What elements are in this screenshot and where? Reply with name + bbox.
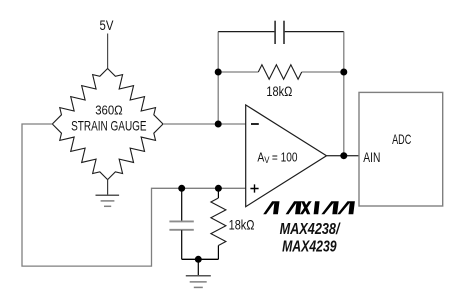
- svg-text:MAX4239: MAX4239: [282, 238, 337, 255]
- label 5V supply: [100, 17, 114, 33]
- wire op-amp output to ADC: [327, 155, 360, 157]
- wire 5V to bridge top node: [107, 34, 109, 69]
- strain gauge bridge arm top-left: [52, 69, 107, 125]
- capacitor C2 (input filter): [169, 188, 193, 259]
- strain gauge bridge arm top-right: [108, 69, 163, 125]
- svg-text:360Ω: 360Ω: [95, 102, 123, 117]
- junction feedback right at resistor: [340, 69, 347, 76]
- wire bridge right node to op-amp - input: [163, 123, 246, 125]
- wire feedback left vertical: [217, 32, 219, 124]
- label 360 ohm strain gauge: [71, 102, 147, 133]
- ADC box: [359, 92, 443, 206]
- junction feedback left at resistor: [215, 69, 222, 76]
- label 18k ohm (feedback): [266, 84, 292, 99]
- resistor R1 18k (feedback): [258, 65, 301, 80]
- junction + input at resistor: [215, 185, 222, 192]
- ground (bridge bottom): [96, 180, 120, 207]
- op-amp U1: [246, 105, 327, 207]
- svg-text:V: V: [264, 154, 270, 165]
- junction output node: [340, 152, 347, 159]
- junction + input at capacitor: [178, 185, 185, 192]
- label ADC: [392, 132, 411, 147]
- junction - input node: [215, 121, 222, 128]
- svg-text:STRAIN GAUGE: STRAIN GAUGE: [71, 118, 147, 134]
- pin label AIN: [363, 149, 380, 165]
- capacitor C1 (feedback): [275, 21, 284, 44]
- ground (filter): [186, 259, 211, 287]
- svg-text:18kΩ: 18kΩ: [229, 218, 255, 233]
- svg-text:AIN: AIN: [363, 149, 380, 165]
- wire bottom node: [182, 258, 219, 260]
- wire bridge left node to op-amp + input (bottom route): [22, 124, 246, 266]
- label MAX4238/MAX4239: [280, 221, 341, 255]
- label 18k ohm (gain set): [229, 218, 255, 233]
- wire feedback top loop (capacitor leads): [218, 31, 344, 33]
- strain gauge bridge arm bottom-right: [108, 124, 163, 180]
- MAXIM logo: [263, 201, 355, 214]
- svg-text:5V: 5V: [100, 17, 114, 33]
- svg-text:MAX4238/: MAX4238/: [280, 221, 341, 238]
- svg-text:18kΩ: 18kΩ: [266, 84, 292, 99]
- strain gauge bridge arm bottom-left: [52, 124, 107, 180]
- resistor R2 18k (gain set): [211, 188, 226, 259]
- wire feedback right vertical to output node: [343, 32, 345, 156]
- svg-text:ADC: ADC: [392, 132, 411, 147]
- wire feedback resistor leads: [218, 71, 344, 73]
- svg-text:= 100: = 100: [272, 150, 298, 165]
- junction ground node: [195, 256, 202, 263]
